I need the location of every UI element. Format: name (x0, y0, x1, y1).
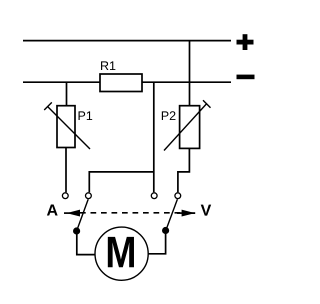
resistor R1 (100, 74, 142, 92)
arrow to A (left) (64, 210, 80, 217)
potentiometer P1 wiper end bar (44, 102, 52, 110)
switch wiper: left selector lever (77, 199, 89, 231)
minus terminal symbol (237, 75, 255, 80)
gang line (dashed) between selector levers (80, 212, 181, 214)
wire: right dot down and to motor (148, 231, 165, 254)
potentiometer P2 body (180, 106, 200, 149)
switch wiper: right selector lever (166, 199, 178, 230)
contact node: voltmeter-side selector terminal (175, 193, 181, 199)
contact node: ammeter-side selector terminal (86, 193, 92, 199)
junction dot: left lever to motor (73, 227, 80, 234)
potentiometer P2 wiper end bar (203, 100, 211, 108)
label P2 (162, 111, 176, 120)
potentiometer P1 body (57, 106, 75, 148)
contact node: P1 output terminal (62, 193, 68, 199)
wire: P2 bottom jog to contact (178, 148, 190, 192)
potentiometer P2 wiper arrow (164, 103, 207, 150)
motor M circle (95, 227, 148, 280)
wire: - supply rail (second horizontal) (23, 81, 231, 83)
plus terminal symbol (237, 34, 254, 50)
label A (47, 204, 58, 215)
wire: - rail down to contact (right of R1) (153, 82, 155, 192)
contact node: rail terminal (151, 193, 157, 199)
label V (201, 205, 211, 216)
wire: + supply rail (top horizontal) (23, 40, 231, 42)
wire: horizontal branch to second contact (89, 172, 154, 192)
junction dot: right lever to motor (162, 227, 169, 234)
arrow to V (right) (177, 210, 195, 217)
wire: P1 bottom to contact (65, 148, 67, 193)
wire: rail down to potentiometer P1 (66, 82, 68, 106)
label R1 (101, 61, 115, 70)
wire: + rail down through - rail to potentiometer P2 (189, 41, 191, 106)
label P1 (79, 111, 93, 120)
potentiometer P1 wiper arrow (47, 106, 90, 149)
motor M letter (108, 237, 134, 267)
wire: left dot down and to motor (77, 231, 95, 255)
